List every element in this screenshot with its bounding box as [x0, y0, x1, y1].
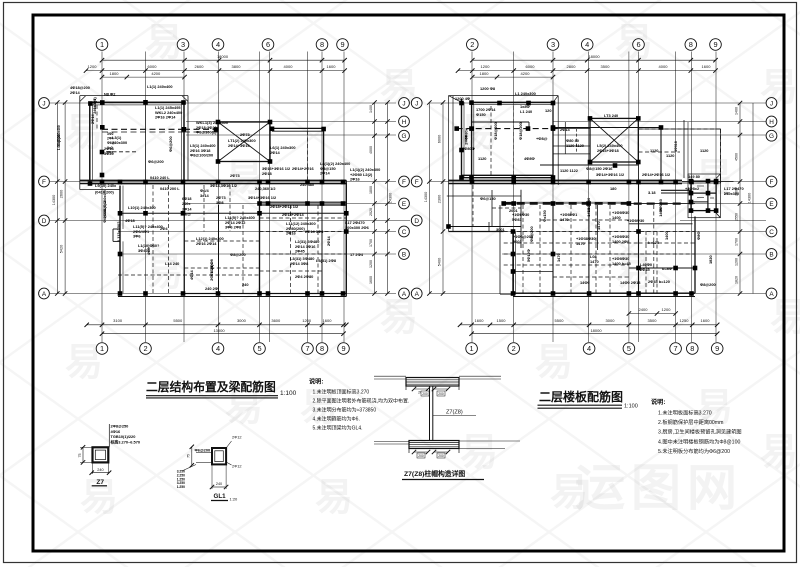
svg-text:5.未注明顶梁均为GL4.: 5.未注明顶梁均为GL4. — [313, 425, 363, 432]
svg-text:5.未注明板分布筋均为Φ6@200: 5.未注明板分布筋均为Φ6@200 — [658, 447, 730, 455]
svg-text:4200: 4200 — [151, 71, 161, 76]
svg-text:14300: 14300 — [52, 195, 56, 206]
svg-text:3.厨房,卫生间楼板预留孔洞见建筑图: 3.厨房,卫生间楼板预留孔洞见建筑图 — [658, 428, 742, 436]
svg-text:G: G — [402, 133, 407, 140]
svg-text:8: 8 — [320, 40, 324, 49]
svg-text:1120: 1120 — [478, 156, 486, 161]
svg-text:5Φ81: 5Φ81 — [512, 217, 523, 222]
svg-text:4: 4 — [587, 344, 591, 353]
svg-text:二层楼板配筋图: 二层楼板配筋图 — [539, 389, 623, 404]
svg-text:300x300 2Φ6: 300x300 2Φ6 — [345, 225, 370, 230]
svg-text:2Φ4: 2Φ4 — [160, 226, 168, 231]
left plan side letter bubbles — [39, 98, 50, 109]
svg-text:1: 1 — [470, 344, 474, 353]
svg-text:1700: 1700 — [369, 239, 373, 247]
svg-text:349 80: 349 80 — [688, 174, 700, 179]
svg-text:说明:: 说明: — [309, 378, 323, 386]
svg-text:J: J — [770, 101, 773, 108]
svg-text:L1 240x300: L1 240x300 — [515, 91, 536, 96]
svg-text:C: C — [402, 229, 407, 236]
svg-text:A: A — [415, 291, 420, 298]
svg-text:3000: 3000 — [237, 318, 247, 323]
svg-text:13000: 13000 — [213, 328, 225, 333]
svg-text:1.05x3300: 1.05x3300 — [57, 134, 61, 150]
svg-text:3: 3 — [181, 40, 185, 49]
svg-text:5: 5 — [627, 344, 631, 353]
svg-text:1200: 1200 — [302, 318, 312, 323]
svg-text:4: 4 — [216, 344, 220, 353]
svg-text:1120 1122: 1120 1122 — [560, 168, 579, 173]
svg-text:F: F — [415, 179, 419, 186]
svg-text:3100: 3100 — [113, 318, 123, 323]
svg-text:240x300: 240x300 — [92, 99, 97, 114]
svg-text:200: 200 — [438, 392, 444, 396]
svg-text:6: 6 — [266, 40, 270, 49]
svg-text:2400: 2400 — [639, 307, 649, 312]
svg-text:2Φ16: 2Φ16 — [286, 231, 297, 236]
svg-text:Φ18@200: Φ18@200 — [518, 122, 523, 140]
svg-text:说明:: 说明: — [651, 398, 665, 406]
svg-text:6000: 6000 — [438, 135, 442, 143]
left plan right dimension chain — [387, 103, 389, 294]
svg-text:2Φ14: 2Φ14 — [270, 150, 281, 155]
svg-text:17 2Φ4: 17 2Φ4 — [350, 252, 364, 257]
svg-text:+1Φ8Φ30: +1Φ8Φ30 — [627, 218, 644, 223]
svg-text:L3(31) 2Φ8: L3(31) 2Φ8 — [316, 258, 337, 263]
right plan E-row beam band — [504, 203, 683, 205]
left plan bottom double wall line — [118, 296, 346, 298]
left plan top axis bubbles — [96, 39, 108, 51]
svg-text:二层结构布置及梁配筋图: 二层结构布置及梁配筋图 — [146, 380, 276, 394]
svg-text:LT3 240: LT3 240 — [604, 113, 618, 118]
svg-text:7: 7 — [305, 344, 309, 353]
svg-text:3Φ6 2Φ8: 3Φ6 2Φ8 — [225, 225, 242, 230]
right plan bottom axis bubbles — [466, 343, 478, 355]
svg-text:1.未注明板面标高3.270: 1.未注明板面标高3.270 — [658, 409, 712, 417]
left plan left dimension chain — [64, 103, 66, 294]
svg-text:1120: 1120 — [666, 153, 674, 158]
svg-text:1470: 1470 — [560, 217, 569, 222]
svg-text:运图网: 运图网 — [575, 460, 743, 516]
left plan right wall — [345, 180, 347, 296]
svg-text:1: 1 — [100, 344, 104, 353]
right plan stair X-box — [590, 118, 638, 162]
svg-text:2: 2 — [512, 344, 516, 353]
svg-text:2600: 2600 — [60, 190, 64, 198]
svg-text:L1 240: L1 240 — [520, 109, 532, 114]
svg-text:6000: 6000 — [526, 64, 536, 69]
svg-text:2Φ14: 2Φ14 — [326, 235, 331, 246]
svg-text:B: B — [402, 252, 406, 259]
svg-text:Φx150: Φx150 — [542, 210, 547, 222]
svg-text:4000: 4000 — [369, 146, 373, 154]
svg-text:GL1: GL1 — [214, 493, 227, 500]
svg-text:1.250: 1.250 — [177, 485, 185, 489]
svg-text:2Φ73: 2Φ73 — [230, 173, 241, 178]
svg-text:1.未注明板顶面标高3.270: 1.未注明板顶面标高3.270 — [313, 388, 370, 395]
svg-text:2.除平面图注明者外布筋现浇,均为双中布置.: 2.除平面图注明者外布筋现浇,均为双中布置. — [313, 397, 410, 404]
svg-text:1:100: 1:100 — [280, 390, 297, 397]
svg-text:2Φ14 3Φ8: 2Φ14 3Φ8 — [305, 229, 324, 234]
svg-text:1200 4Φ: 1200 4Φ — [455, 96, 471, 101]
svg-text:4500: 4500 — [735, 153, 739, 161]
svg-text:4Φ80Φ: 4Φ80Φ — [462, 146, 476, 151]
svg-text:L14 240: L14 240 — [165, 261, 179, 266]
svg-text:240x300: 240x300 — [724, 191, 739, 196]
svg-text:2Φ70 2Φ0: 2Φ70 2Φ0 — [209, 263, 214, 281]
svg-text:4000: 4000 — [659, 64, 669, 69]
svg-text:Φ8@100/200: Φ8@100/200 — [190, 153, 213, 158]
svg-text:4: 4 — [585, 40, 589, 49]
left plan grid lines — [101, 52, 103, 343]
svg-text:1400: 1400 — [735, 107, 739, 115]
svg-text:4000: 4000 — [284, 64, 294, 69]
svg-text:8: 8 — [690, 344, 694, 353]
svg-text:1: 1 — [100, 40, 104, 49]
svg-text:易: 易 — [225, 157, 263, 199]
svg-text:1470: 1470 — [590, 259, 599, 264]
svg-text:Z7: Z7 — [96, 479, 104, 486]
svg-text:3: 3 — [551, 40, 555, 49]
svg-text:C: C — [769, 229, 774, 236]
svg-text:2Φ18+2Φ14: 2Φ18+2Φ14 — [282, 212, 304, 217]
svg-text:4Φ16: 4Φ16 — [111, 429, 122, 434]
svg-text:1470: 1470 — [556, 253, 561, 262]
svg-text:1200: 1200 — [662, 307, 672, 312]
svg-text:Φ6@150: Φ6@150 — [480, 196, 496, 201]
svg-text:4Φ18: 4Φ18 — [125, 218, 136, 223]
left plan bottom dimension chain — [87, 324, 347, 326]
svg-text:2Φ4: 2Φ4 — [107, 137, 114, 141]
svg-text:2Φ16: 2Φ16 — [350, 177, 361, 182]
svg-text:Φ8@200: Φ8@200 — [700, 282, 716, 287]
svg-text:240,360 1/2: 240,360 1/2 — [255, 186, 276, 191]
svg-text:2: 2 — [143, 344, 147, 353]
svg-text:240 2Φ: 240 2Φ — [205, 286, 219, 291]
svg-text:H: H — [402, 119, 407, 126]
svg-text:3Φ2: 3Φ2 — [107, 132, 114, 136]
svg-text:2300: 2300 — [438, 195, 442, 203]
svg-text:2800: 2800 — [567, 64, 577, 69]
svg-text:2Φ18+2Φ14 1/2: 2Φ18+2Φ14 1/2 — [270, 204, 299, 209]
svg-text:1400: 1400 — [612, 215, 621, 220]
svg-text:1600: 1600 — [327, 64, 337, 69]
svg-text:4200: 4200 — [521, 71, 531, 76]
svg-text:2Φ45 b=120: 2Φ45 b=120 — [648, 279, 670, 284]
svg-text:2Φ45: 2Φ45 — [640, 267, 651, 272]
svg-text:9: 9 — [341, 344, 345, 353]
svg-text:0410 200 L: 0410 200 L — [160, 186, 180, 191]
detail Z7(Z8) column cap — [374, 375, 406, 377]
svg-text:6: 6 — [636, 40, 640, 49]
svg-text:Φ8@200: Φ8@200 — [230, 252, 246, 257]
svg-text:1200: 1200 — [481, 64, 491, 69]
left plan lower-middle room walls — [184, 184, 259, 294]
svg-text:E: E — [769, 201, 773, 208]
svg-text:2Φ45: 2Φ45 — [295, 249, 306, 254]
svg-text:2Φ16 2Φ14: 2Φ16 2Φ14 — [196, 241, 217, 246]
svg-text:3Φ14,3Φ16 1/2: 3Φ14,3Φ16 1/2 — [210, 183, 238, 188]
svg-text:2: 2 — [470, 40, 474, 49]
left plan bottom axis bubbles — [96, 343, 108, 355]
svg-text:2Φ14: 2Φ14 — [70, 90, 81, 95]
svg-text:TGB10(1)/220: TGB10(1)/220 — [111, 434, 136, 439]
svg-text:1820: 1820 — [708, 255, 713, 264]
svg-text:F: F — [402, 179, 406, 186]
svg-text:2Φ14: 2Φ14 — [560, 127, 571, 132]
svg-text:18000: 18000 — [590, 328, 602, 333]
svg-text:9: 9 — [340, 40, 344, 49]
svg-text:2Φ73: 2Φ73 — [240, 132, 251, 137]
left plan upper-middle room walls — [272, 127, 324, 129]
svg-text:18000: 18000 — [217, 54, 229, 59]
svg-text:5500: 5500 — [555, 318, 565, 323]
svg-text:Φ6@200: Φ6@200 — [148, 159, 164, 164]
svg-text:18000: 18000 — [588, 54, 600, 59]
right plan right dimension chain — [739, 103, 741, 294]
svg-text:14300: 14300 — [424, 192, 428, 203]
right plan bottom dimension chain — [629, 313, 676, 315]
svg-text:易: 易 — [535, 342, 573, 384]
svg-text:2Φ14: 2Φ14 — [182, 207, 192, 211]
svg-text:易: 易 — [315, 477, 353, 519]
svg-text:14300: 14300 — [389, 193, 393, 204]
svg-text:7: 7 — [674, 344, 678, 353]
svg-text:2020: 2020 — [369, 208, 373, 216]
svg-text:14Φ0 2Φ18: 14Φ0 2Φ18 — [620, 280, 641, 285]
svg-text:240: 240 — [97, 468, 103, 472]
svg-text:Φ8@200: Φ8@200 — [529, 226, 534, 242]
svg-text:b=8Φ: b=8Φ — [662, 266, 673, 271]
right plan grid lines — [471, 52, 473, 343]
right plan right-side service block — [691, 181, 716, 211]
svg-text:8: 8 — [320, 344, 324, 353]
svg-text:1200: 1200 — [88, 64, 98, 69]
svg-text:Φ8Φ: Φ8Φ — [696, 231, 701, 240]
svg-text:2Φ14+3Φ16: 2Φ14+3Φ16 — [228, 143, 250, 148]
left plan stair X-box — [218, 122, 270, 162]
svg-text:14300: 14300 — [748, 193, 752, 204]
left plan lower-left room walls — [119, 186, 121, 294]
svg-text:G: G — [769, 133, 774, 140]
svg-text:D: D — [414, 218, 419, 225]
svg-text:3Φ8: 3Φ8 — [216, 200, 224, 205]
svg-text:4.图中未注明楼板钢筋均为Φ8@100: 4.图中未注明楼板钢筋均为Φ8@100 — [658, 437, 740, 445]
svg-text:1600: 1600 — [323, 318, 333, 323]
svg-text:1120 1120: 1120 1120 — [566, 143, 584, 148]
svg-text:3500: 3500 — [648, 318, 658, 323]
svg-text:1600: 1600 — [702, 64, 712, 69]
svg-text:1200: 1200 — [735, 258, 739, 266]
svg-text:120: 120 — [545, 108, 552, 113]
svg-text:易: 易 — [760, 432, 798, 474]
svg-text:Z7(Z8): Z7(Z8) — [446, 410, 463, 416]
svg-text:F: F — [42, 179, 46, 186]
svg-text:3800: 3800 — [232, 64, 242, 69]
svg-text:200: 200 — [438, 454, 444, 458]
svg-text:N8 Φ2: N8 Φ2 — [104, 92, 116, 97]
svg-text:1470: 1470 — [586, 208, 591, 217]
svg-text:E: E — [402, 201, 406, 208]
svg-text:4.未注明箍筋均为Φ6.: 4.未注明箍筋均为Φ6. — [313, 416, 360, 423]
svg-text:3600: 3600 — [271, 318, 281, 323]
svg-text:1600: 1600 — [701, 318, 711, 323]
left plan lower-right room walls — [260, 184, 347, 294]
svg-text:易: 易 — [460, 432, 498, 474]
svg-text:3001: 3001 — [496, 227, 505, 232]
svg-text:B: B — [769, 252, 773, 259]
svg-text:1820: 1820 — [735, 276, 739, 284]
svg-text:3Φ14+3Φ16 1/2: 3Φ14+3Φ16 1/2 — [248, 195, 277, 200]
svg-text:1600: 1600 — [475, 318, 485, 323]
svg-text:14Φ0: 14Φ0 — [580, 280, 590, 285]
svg-text:2Φ14+2Φ16: 2Φ14+2Φ16 — [292, 166, 314, 171]
svg-text:200: 200 — [418, 454, 424, 458]
right plan lower-left wing — [447, 226, 521, 228]
svg-text:3.未注明分布筋均为≈373850: 3.未注明分布筋均为≈373850 — [313, 407, 377, 414]
svg-text:L9(10) 240x: L9(10) 240x — [95, 183, 117, 188]
svg-text:A: A — [402, 291, 407, 298]
svg-text:5: 5 — [257, 344, 261, 353]
svg-text:4: 4 — [216, 40, 220, 49]
svg-text:J: J — [415, 101, 418, 108]
svg-text:Φ18@200: Φ18@200 — [493, 122, 498, 140]
svg-text:1800: 1800 — [480, 71, 490, 76]
svg-text:5400: 5400 — [438, 258, 442, 266]
svg-text:240: 240 — [216, 482, 222, 486]
left plan column squares — [88, 101, 93, 106]
svg-text:Z7(Z8)柱帽构造详图: Z7(Z8)柱帽构造详图 — [404, 469, 465, 478]
svg-text:1470: 1470 — [596, 221, 601, 230]
svg-text:1120: 1120 — [700, 148, 708, 153]
svg-text:240: 240 — [242, 282, 249, 287]
svg-text:2Φ14 3Φ8: 2Φ14 3Φ8 — [290, 261, 309, 266]
svg-text:75: 75 — [187, 454, 191, 458]
left plan top-left room walls — [90, 102, 184, 183]
svg-text:1.113x350?: 1.113x350? — [116, 221, 121, 242]
svg-text:3000: 3000 — [606, 318, 616, 323]
left plan F-row beam band — [80, 179, 347, 181]
svg-text:2Φ14+2Φ16 1/2: 2Φ14+2Φ16 1/2 — [642, 172, 671, 177]
svg-text:Φ6@: Φ6@ — [107, 141, 116, 145]
svg-text:2Φ16 2Φ14: 2Φ16 2Φ14 — [155, 115, 176, 120]
svg-text:易: 易 — [145, 252, 183, 294]
svg-text:6000: 6000 — [148, 64, 158, 69]
svg-text:8: 8 — [689, 40, 693, 49]
svg-text:1500: 1500 — [497, 318, 507, 323]
svg-text:+Φ8@: +Φ8@ — [536, 136, 548, 141]
right plan F-row beam band — [449, 179, 683, 181]
left plan eave outline — [80, 95, 188, 97]
svg-text:2Φ12: 2Φ12 — [232, 464, 242, 469]
right plan eave outline — [449, 95, 559, 97]
svg-text:1:100: 1:100 — [624, 404, 638, 410]
svg-text:Φ6@: Φ6@ — [182, 213, 191, 217]
detail Z7 column section — [93, 447, 109, 462]
svg-text:1400: 1400 — [369, 105, 373, 113]
svg-text:Φ6@200: Φ6@200 — [195, 448, 211, 453]
svg-text:J: J — [402, 101, 405, 108]
svg-text:1250: 1250 — [680, 318, 690, 323]
detail GL1 section — [212, 448, 226, 464]
svg-text:2Φ4 2Φ80: 2Φ4 2Φ80 — [295, 274, 313, 279]
svg-text:1800: 1800 — [110, 71, 120, 76]
svg-text:3Φ14+3Φ16 1/2: 3Φ14+3Φ16 1/2 — [596, 172, 625, 177]
svg-text:Φ6@200: Φ6@200 — [103, 209, 107, 223]
svg-text:Φ6@200: Φ6@200 — [168, 136, 173, 152]
svg-text:Φ8@150 2Φ16: Φ8@150 2Φ16 — [586, 166, 613, 171]
svg-text:3.18: 3.18 — [648, 190, 656, 195]
svg-text:1800: 1800 — [369, 186, 373, 194]
svg-text:A: A — [42, 291, 47, 298]
svg-text:75: 75 — [78, 454, 82, 458]
svg-text:2Φ14: 2Φ14 — [320, 171, 331, 176]
svg-text:J: J — [42, 101, 45, 108]
svg-text:1120: 1120 — [650, 148, 658, 153]
svg-text:F: F — [770, 179, 774, 186]
svg-text:3x14: 3x14 — [200, 193, 209, 198]
svg-text:2Φ14: 2Φ14 — [90, 113, 95, 124]
svg-text:240 480: 240 480 — [300, 182, 314, 187]
svg-text:Φ150: Φ150 — [476, 112, 486, 117]
svg-text:2550: 2550 — [735, 213, 739, 221]
svg-text:4Φ8: 4Φ8 — [146, 247, 151, 255]
svg-text:1200 Φ8: 1200 Φ8 — [480, 86, 496, 91]
right plan top axis bubbles — [467, 39, 479, 51]
svg-text:2600: 2600 — [195, 64, 205, 69]
svg-text:L1(1) 240x400: L1(1) 240x400 — [147, 84, 173, 89]
svg-text:200: 200 — [422, 392, 428, 396]
svg-text:1400: 1400 — [664, 231, 669, 240]
svg-text:标高3.270~6.570: 标高3.270~6.570 — [110, 439, 141, 444]
svg-text:H: H — [769, 119, 774, 126]
svg-text:0410 240 L: 0410 240 L — [150, 175, 170, 180]
svg-text:3Φ20: 3Φ20 — [104, 151, 114, 156]
right plan left dimension chain — [428, 103, 430, 294]
svg-text:1700: 1700 — [735, 238, 739, 246]
svg-text:2Φ8@250: 2Φ8@250 — [111, 424, 129, 429]
svg-text:240x: 240x — [182, 202, 191, 206]
svg-text:3500: 3500 — [601, 64, 611, 69]
svg-text:Φ8@100(2): Φ8@100(2) — [196, 130, 217, 135]
svg-text:1400: 1400 — [658, 208, 663, 217]
svg-text:A: A — [769, 291, 774, 298]
svg-text:180: 180 — [610, 186, 617, 191]
svg-text:1200: 1200 — [369, 260, 373, 268]
right plan upper-right terrace dashed — [639, 129, 721, 183]
svg-text:2Φ16+3Φ18: 2Φ16+3Φ18 — [597, 148, 619, 153]
svg-text:+4Φ8x2: +4Φ8x2 — [685, 186, 700, 191]
svg-text:5500: 5500 — [173, 318, 183, 323]
svg-text:D: D — [42, 218, 47, 225]
svg-text:6Φ18: 6Φ18 — [182, 197, 191, 201]
right plan top-left room walls — [461, 99, 463, 178]
svg-text:2Φ12: 2Φ12 — [232, 435, 242, 440]
svg-text:L10(1) 240x300: L10(1) 240x300 — [128, 205, 156, 210]
right plan side letter bubbles — [766, 98, 777, 109]
svg-text:5420: 5420 — [60, 245, 64, 253]
svg-text:1600: 1600 — [369, 276, 373, 284]
svg-text:2Φ50: 2Φ50 — [464, 135, 469, 145]
right plan column squares — [459, 101, 464, 106]
svg-text:2.板钢筋保护层中距离00mm: 2.板钢筋保护层中距离00mm — [658, 418, 723, 426]
svg-text:5Φ12Φ: 5Φ12Φ — [526, 248, 531, 262]
svg-text:4Φ8Φ: 4Φ8Φ — [524, 156, 536, 161]
svg-text:4Φ018: 4Φ018 — [674, 141, 678, 152]
svg-text:9: 9 — [713, 40, 717, 49]
svg-text:3Φ6: 3Φ6 — [133, 234, 141, 239]
right plan lower body walls — [499, 205, 501, 294]
